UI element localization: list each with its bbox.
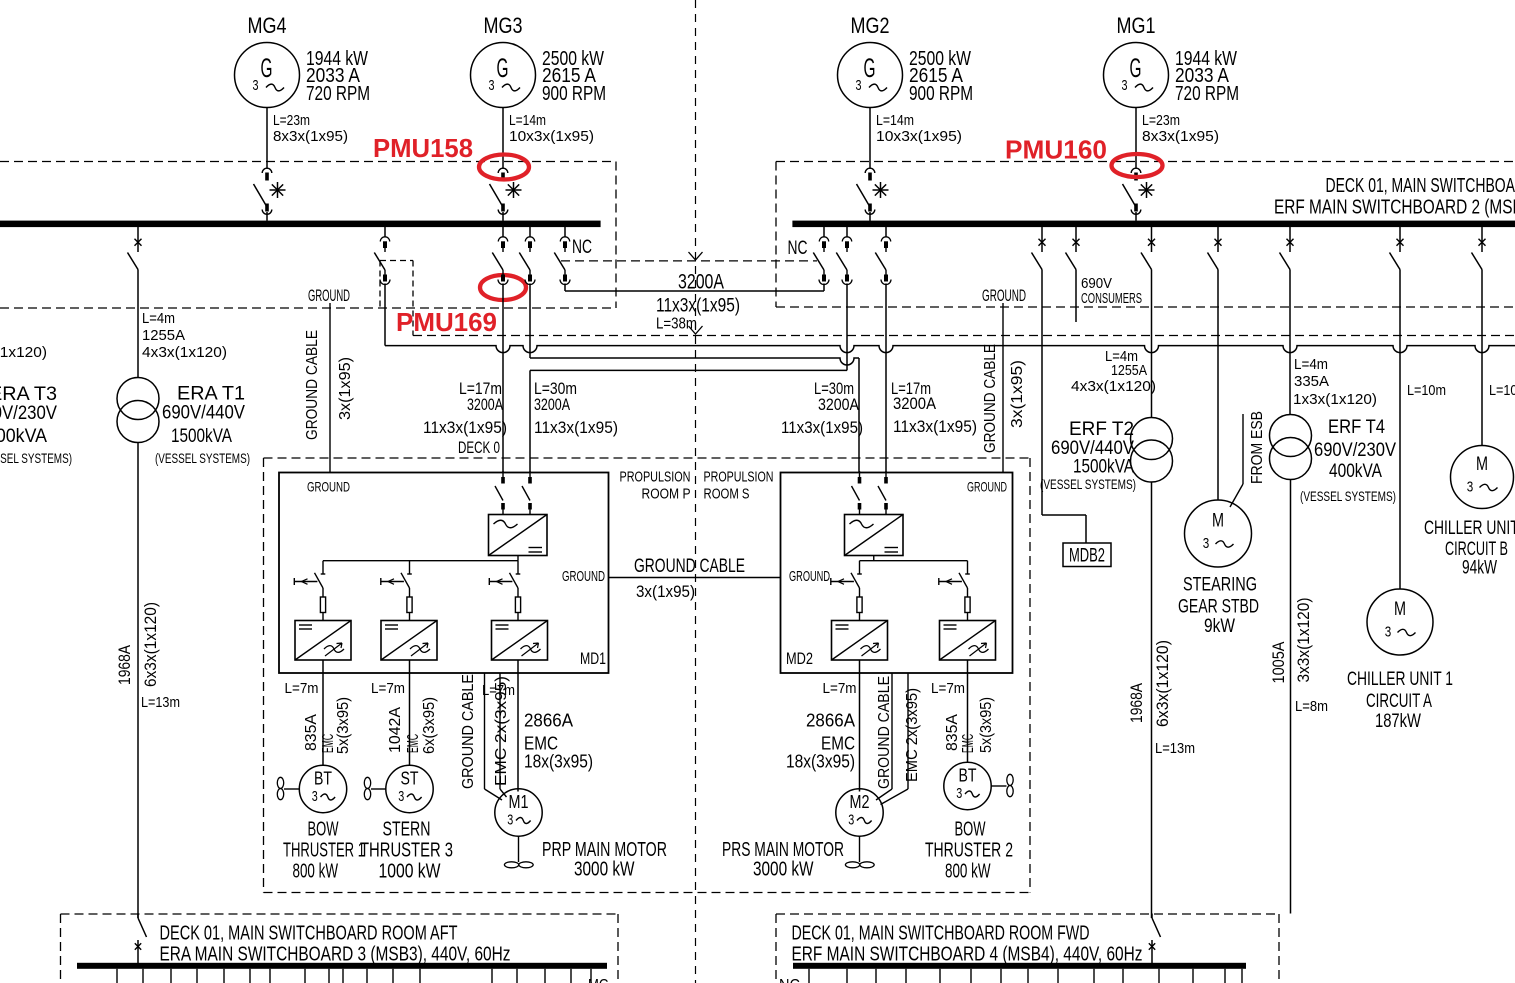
svg-text:MG2: MG2	[851, 13, 890, 38]
svg-text:BT: BT	[314, 769, 332, 789]
svg-text:NC: NC	[572, 237, 592, 258]
svg-text:MD1: MD1	[580, 650, 606, 668]
svg-text:ERF T4: ERF T4	[1328, 417, 1385, 438]
svg-text:L=10m: L=10m	[1489, 382, 1515, 399]
svg-text:ERF T2: ERF T2	[1069, 419, 1134, 440]
svg-text:18x(3x95): 18x(3x95)	[786, 752, 855, 772]
svg-text:3: 3	[856, 77, 862, 94]
svg-text:ERF MAIN SWITCHBOARD 2 (MSB2),: ERF MAIN SWITCHBOARD 2 (MSB2), 690V, 60H…	[1274, 197, 1515, 219]
svg-text:ROOM P: ROOM P	[642, 487, 691, 503]
svg-text:3: 3	[1385, 624, 1392, 641]
svg-text:3: 3	[848, 812, 854, 829]
svg-text:1005A: 1005A	[1270, 642, 1288, 684]
svg-text:3: 3	[398, 788, 404, 805]
svg-text:11x3x(1x95): 11x3x(1x95)	[893, 418, 977, 436]
svg-text:DECK 01, MAIN SWITCHBOARD ROOM: DECK 01, MAIN SWITCHBOARD ROOM	[1326, 175, 1515, 197]
svg-text:M: M	[1212, 511, 1224, 532]
svg-text:3200A: 3200A	[534, 396, 570, 414]
svg-text:1255A: 1255A	[142, 327, 185, 344]
svg-text:3200A: 3200A	[467, 396, 503, 414]
svg-text:(VESSEL SYSTEMS): (VESSEL SYSTEMS)	[1300, 489, 1396, 504]
svg-text:720 RPM: 720 RPM	[1175, 83, 1239, 105]
svg-text:L=38m: L=38m	[656, 316, 697, 333]
svg-text:CONSUMERS: CONSUMERS	[1081, 291, 1142, 307]
svg-text:THRUSTER 1: THRUSTER 1	[283, 840, 365, 862]
svg-text:M: M	[1476, 454, 1488, 475]
svg-text:GROUND: GROUND	[562, 568, 605, 585]
svg-text:9kW: 9kW	[1204, 615, 1235, 637]
svg-text:MG: MG	[588, 977, 609, 983]
svg-text:3200A: 3200A	[893, 395, 936, 413]
svg-text:3: 3	[1203, 535, 1210, 552]
svg-text:ERF MAIN SWITCHBOARD 4 (MSB4),: ERF MAIN SWITCHBOARD 4 (MSB4), 440V, 60H…	[792, 944, 1143, 966]
svg-text:NC: NC	[779, 977, 800, 983]
svg-text:11x3x(1x95): 11x3x(1x95)	[534, 419, 618, 437]
svg-text:1500kVA: 1500kVA	[1073, 457, 1134, 478]
svg-text:4x3x(1x120): 4x3x(1x120)	[0, 344, 47, 361]
svg-text:(VESSEL SYSTEMS): (VESSEL SYSTEMS)	[155, 451, 250, 466]
svg-text:THRUSTER 3: THRUSTER 3	[360, 840, 453, 862]
svg-text:187kW: 187kW	[1375, 710, 1421, 732]
svg-text:11x3x(1x95): 11x3x(1x95)	[781, 419, 863, 437]
svg-text:800 kW: 800 kW	[293, 861, 339, 883]
svg-text:720 RPM: 720 RPM	[306, 83, 370, 105]
svg-text:PMU169: PMU169	[396, 307, 497, 337]
svg-text:6x(3x95): 6x(3x95)	[421, 697, 438, 754]
svg-text:BT: BT	[959, 766, 977, 786]
svg-text:3: 3	[1467, 479, 1474, 496]
svg-text:690V/230V: 690V/230V	[1314, 440, 1396, 461]
svg-text:PMU158: PMU158	[373, 133, 473, 163]
svg-text:900 RPM: 900 RPM	[909, 83, 973, 105]
svg-text:690V/230V: 690V/230V	[0, 403, 57, 424]
svg-text:10x3x(1x95): 10x3x(1x95)	[509, 128, 594, 145]
svg-text:EMC: EMC	[821, 734, 855, 754]
svg-text:G: G	[864, 53, 876, 83]
svg-text:CIRCUIT A: CIRCUIT A	[1366, 690, 1432, 712]
svg-text:3: 3	[312, 788, 318, 805]
svg-text:2866A: 2866A	[806, 711, 855, 731]
svg-text:M1: M1	[509, 792, 529, 812]
svg-text:94kW: 94kW	[1462, 557, 1497, 579]
svg-text:MG1: MG1	[1117, 13, 1156, 38]
svg-text:5x(3x95): 5x(3x95)	[335, 697, 352, 754]
svg-text:GROUND: GROUND	[967, 479, 1007, 495]
svg-text:835A: 835A	[303, 714, 320, 751]
svg-text:ERA MAIN SWITCHBOARD 3 (MSB3),: ERA MAIN SWITCHBOARD 3 (MSB3), 440V, 60H…	[160, 944, 511, 966]
svg-text:3000 kW: 3000 kW	[753, 859, 814, 881]
svg-text:L=7m: L=7m	[823, 680, 857, 697]
svg-text:EMC: EMC	[524, 734, 558, 754]
svg-text:GROUND CABLE: GROUND CABLE	[304, 330, 321, 440]
svg-text:3: 3	[489, 77, 495, 94]
svg-text:GROUND: GROUND	[307, 479, 350, 495]
svg-text:EMC: EMC	[405, 734, 422, 753]
svg-text:EMC 2x(3x95): EMC 2x(3x95)	[493, 676, 510, 786]
svg-text:800 kW: 800 kW	[945, 861, 991, 883]
svg-text:THRUSTER 2: THRUSTER 2	[925, 840, 1013, 862]
svg-text:L=7m: L=7m	[285, 680, 319, 697]
svg-text:3x3x(1x120): 3x3x(1x120)	[1295, 598, 1313, 683]
svg-text:2866A: 2866A	[524, 711, 573, 731]
svg-text:3: 3	[253, 77, 259, 94]
svg-text:PMU160: PMU160	[1005, 135, 1107, 165]
svg-text:10x3x(1x95): 10x3x(1x95)	[876, 128, 962, 145]
svg-text:L=23m: L=23m	[273, 112, 310, 129]
svg-text:PROPULSION: PROPULSION	[620, 470, 691, 486]
svg-text:ST: ST	[401, 769, 419, 789]
svg-text:11x3x(1x95): 11x3x(1x95)	[656, 295, 740, 317]
svg-text:(VESSEL SYSTEMS): (VESSEL SYSTEMS)	[1040, 477, 1136, 492]
svg-text:L=7m: L=7m	[371, 680, 405, 697]
svg-text:3x(1x95): 3x(1x95)	[636, 582, 695, 601]
svg-text:L=4m: L=4m	[142, 310, 175, 327]
svg-text:GROUND CABLE: GROUND CABLE	[876, 676, 893, 789]
svg-text:L=13m: L=13m	[141, 694, 180, 711]
svg-text:1000 kW: 1000 kW	[379, 861, 441, 883]
svg-text:GROUND CABLE: GROUND CABLE	[460, 674, 477, 789]
svg-text:835A: 835A	[944, 714, 961, 751]
svg-text:L=23m: L=23m	[1142, 112, 1180, 129]
svg-text:5x(3x95): 5x(3x95)	[978, 697, 995, 753]
svg-text:1968A: 1968A	[116, 645, 134, 685]
svg-text:1968A: 1968A	[1128, 683, 1146, 723]
svg-text:ERA T1: ERA T1	[177, 384, 245, 405]
svg-text:M: M	[1394, 599, 1406, 620]
svg-text:1255A: 1255A	[1111, 362, 1147, 379]
svg-text:1x3x(1x120): 1x3x(1x120)	[1293, 391, 1377, 408]
svg-text:3: 3	[507, 812, 513, 829]
svg-text:L=8m: L=8m	[1295, 698, 1328, 715]
svg-text:6x3x(1x120): 6x3x(1x120)	[1154, 640, 1172, 727]
svg-text:DECK 01, MAIN SWITCHBOARD ROOM: DECK 01, MAIN SWITCHBOARD ROOM AFT	[160, 923, 458, 945]
svg-text:MG4: MG4	[248, 13, 287, 38]
svg-text:8x3x(1x95): 8x3x(1x95)	[273, 128, 348, 145]
svg-text:MD2: MD2	[786, 650, 813, 668]
svg-text:3: 3	[1122, 77, 1128, 94]
svg-text:L=14m: L=14m	[876, 112, 914, 129]
svg-text:L=14m: L=14m	[509, 112, 546, 129]
svg-text:11x3x(1x95): 11x3x(1x95)	[423, 419, 507, 437]
svg-text:400kVA: 400kVA	[1329, 461, 1382, 482]
svg-text:1042A: 1042A	[387, 707, 404, 753]
svg-text:DECK 0: DECK 0	[458, 439, 500, 457]
svg-text:ERA T3: ERA T3	[0, 384, 57, 405]
svg-text:L=13m: L=13m	[1155, 740, 1195, 757]
svg-text:GROUND: GROUND	[982, 287, 1026, 305]
svg-text:4x3x(1x120): 4x3x(1x120)	[142, 344, 227, 361]
svg-text:690V/440V: 690V/440V	[162, 403, 245, 424]
svg-text:DECK 01, MAIN SWITCHBOARD ROOM: DECK 01, MAIN SWITCHBOARD ROOM FWD	[792, 923, 1090, 945]
svg-text:FROM ESB: FROM ESB	[1249, 411, 1266, 484]
svg-text:EMC 2x(3x95): EMC 2x(3x95)	[904, 688, 921, 782]
svg-text:3x(1x95): 3x(1x95)	[337, 357, 354, 420]
svg-text:3200A: 3200A	[818, 396, 859, 414]
svg-text:3x(1x95): 3x(1x95)	[1009, 360, 1026, 428]
svg-text:3200A: 3200A	[678, 271, 724, 294]
svg-text:GROUND CABLE: GROUND CABLE	[982, 344, 999, 453]
svg-text:ROOM S: ROOM S	[704, 487, 750, 503]
svg-text:EMC: EMC	[960, 734, 977, 753]
svg-text:4x3x(1x120): 4x3x(1x120)	[1071, 378, 1156, 395]
svg-text:G: G	[1130, 53, 1142, 83]
svg-text:6x3x(1x120): 6x3x(1x120)	[142, 602, 160, 687]
svg-text:BOW: BOW	[308, 819, 339, 841]
svg-text:BOW: BOW	[955, 819, 986, 841]
svg-text:M2: M2	[850, 792, 870, 812]
svg-text:CHILLER UNIT 1: CHILLER UNIT 1	[1347, 668, 1453, 690]
svg-text:GROUND: GROUND	[308, 287, 350, 305]
svg-text:G: G	[497, 53, 509, 83]
svg-text:900 RPM: 900 RPM	[542, 83, 606, 105]
svg-text:3000 kW: 3000 kW	[574, 859, 635, 881]
svg-text:CHILLER UNIT 2: CHILLER UNIT 2	[1424, 517, 1515, 539]
svg-text:GROUND CABLE: GROUND CABLE	[634, 556, 745, 577]
svg-text:3: 3	[956, 785, 962, 802]
svg-text:MG3: MG3	[484, 13, 523, 38]
svg-text:GROUND: GROUND	[789, 568, 830, 585]
svg-text:335A: 335A	[1294, 373, 1329, 390]
svg-text:G: G	[261, 53, 273, 83]
svg-text:PROPULSION: PROPULSION	[704, 470, 774, 486]
svg-text:L=4m: L=4m	[1294, 356, 1328, 373]
svg-text:STERN: STERN	[383, 819, 431, 841]
svg-text:1500kVA: 1500kVA	[171, 426, 232, 447]
svg-text:L=7m: L=7m	[931, 680, 965, 697]
svg-text:NC: NC	[788, 238, 808, 259]
svg-text:8x3x(1x95): 8x3x(1x95)	[1142, 128, 1219, 145]
svg-text:MDB2: MDB2	[1069, 546, 1105, 567]
svg-text:STEARING: STEARING	[1183, 574, 1257, 596]
svg-text:690V: 690V	[1081, 276, 1112, 292]
svg-text:18x(3x95): 18x(3x95)	[524, 752, 593, 772]
svg-text:400kVA: 400kVA	[0, 426, 47, 447]
svg-text:L=10m: L=10m	[1407, 382, 1446, 399]
svg-text:(VESSEL SYSTEMS): (VESSEL SYSTEMS)	[0, 451, 72, 466]
